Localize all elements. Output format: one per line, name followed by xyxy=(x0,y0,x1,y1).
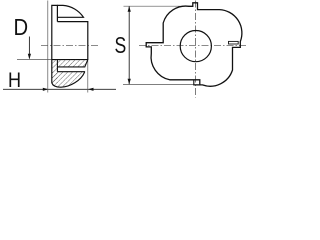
bore line (section) xyxy=(52,59,88,61)
side view: horizontal centerline xyxy=(41,44,98,46)
barrel outline (top half) xyxy=(57,22,87,60)
center hole xyxy=(180,30,211,61)
bottom prong claw (hatched section) xyxy=(52,72,85,88)
H extension line left (flange face extended) xyxy=(47,1,49,93)
face view: horizontal centerline xyxy=(139,44,248,46)
face view outline (flange with four prong cuts) xyxy=(146,3,242,86)
top prong (exterior) xyxy=(57,5,83,17)
bottom prong claw outline xyxy=(52,72,85,88)
dimension D: leader line with down arrow xyxy=(28,37,30,59)
S dimension line with arrows xyxy=(128,6,130,84)
dimension H: dimension line with outside arrows xyxy=(3,88,116,90)
bore diameter extension line (left of flange) xyxy=(17,59,52,61)
bottom prong box xyxy=(194,80,200,85)
svg-text:S: S xyxy=(115,33,127,59)
barrel wall section band (hatched) xyxy=(57,60,87,67)
flange section column (hatched) xyxy=(52,60,58,83)
flange right face lower segment xyxy=(56,60,58,72)
svg-text:D: D xyxy=(14,14,29,41)
flange plate (side view) xyxy=(52,5,58,83)
H extension line right (barrel end extended) xyxy=(87,60,89,93)
S extension line bottom xyxy=(123,84,199,86)
face view: vertical centerline xyxy=(195,1,197,98)
svg-text:H: H xyxy=(8,69,21,93)
S extension line top xyxy=(124,5,191,7)
right prong inner bar xyxy=(229,41,239,44)
